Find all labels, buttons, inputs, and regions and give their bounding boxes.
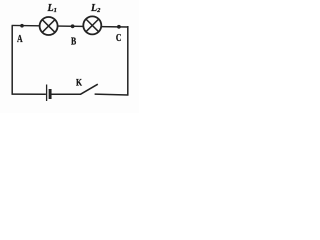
lamp L2 <box>83 16 101 34</box>
node A junction dot <box>20 24 24 28</box>
svg-text:C: C <box>116 32 122 44</box>
wire bottom left segment <box>12 93 46 95</box>
wire switch to bottom right <box>95 93 129 96</box>
switch K lever <box>80 84 98 94</box>
wire right vertical <box>127 26 129 95</box>
svg-text:A: A <box>17 33 23 45</box>
battery short thick plate <box>49 89 52 99</box>
lamp L1 <box>40 17 58 35</box>
wire top horizontal <box>12 25 129 27</box>
svg-text:L2: L2 <box>90 3 101 14</box>
wire left vertical <box>11 25 13 94</box>
svg-text:L1: L1 <box>47 3 57 14</box>
svg-text:B: B <box>71 35 77 47</box>
battery long thin plate <box>46 85 48 102</box>
wire battery to switch <box>52 93 81 95</box>
svg-text:K: K <box>76 77 82 87</box>
node C junction dot <box>117 25 121 29</box>
node B junction dot <box>71 24 75 28</box>
